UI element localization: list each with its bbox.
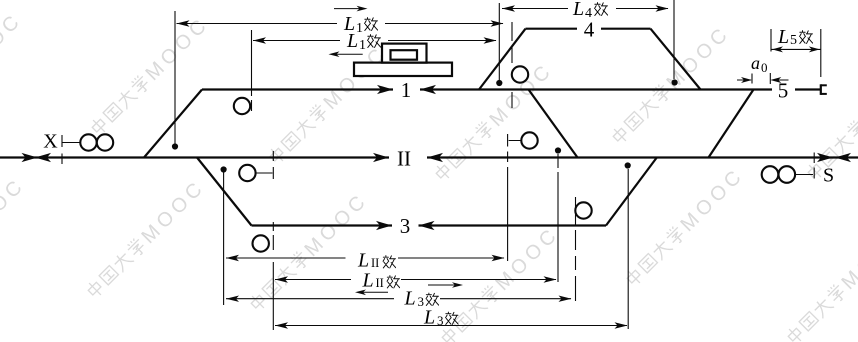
svg-text:4: 4 [585,6,592,21]
direction arrow before L3 outer [355,290,388,296]
turnout track4 left [479,29,526,90]
track 5 label [778,79,789,103]
extension line x=273 dashed [272,151,274,330]
arrowhead into track1 label (left) [420,85,436,94]
dwarf signal track3 right [575,202,591,218]
direction arrow after LII inner [428,282,463,288]
extension line x=499 [498,3,500,80]
extension line x=558 [557,154,559,282]
extension line L5 left [770,29,772,52]
wire track 3 right segment [419,224,607,226]
extension line x=628 [627,169,629,329]
svg-text:L: L [423,307,435,329]
dimension LII inner label [362,270,400,292]
svg-text:X: X [43,131,58,153]
dimension LII outer line [226,255,505,261]
signal X [43,131,113,165]
turnout track3 left [197,158,252,226]
dimension LII outer label [357,250,396,272]
extension line x=674 [673,0,675,79]
extension line x=251.5 dashed [251,30,253,111]
dimension LII inner line [275,276,557,282]
dimension L1 outer label [343,13,378,36]
svg-text:a: a [751,53,760,73]
extension line x=575.5 dashed [575,197,577,301]
extension line x=223.6 [223,172,225,305]
signal S [762,153,834,187]
svg-text:L: L [777,26,789,48]
track 1 label [401,78,412,102]
joint dot track4 left [496,80,502,86]
svg-text:1: 1 [359,38,366,53]
turnout track4 right [651,29,701,90]
dwarf signal above II right [508,132,538,148]
track II label [397,147,411,171]
wire main track II left segment [0,156,389,158]
arrowhead into track3 label (right) [376,221,392,230]
wire main track II right segment [427,156,858,158]
dimension L4 line [502,5,669,11]
joint dot left of track3 turnout [221,166,227,172]
wire track 1 [202,88,393,90]
track 4 label [584,18,595,42]
extension line x=512 dashed [511,22,513,108]
dwarf signal near track1 left [234,98,250,114]
svg-text:3: 3 [437,313,444,328]
arrowhead into track3 label (left) [419,221,435,230]
wire track 5 stub [795,88,821,90]
svg-text:II: II [371,256,379,270]
svg-text:L: L [346,30,358,52]
dimension L3 inner label [423,307,458,329]
dimension L1 outer line [177,20,504,26]
direction arrow below L1 inner [329,51,363,57]
wire track 4 left segment [526,28,578,30]
turnout track5 [709,90,754,158]
svg-text:L: L [572,0,584,20]
left end opposing arrows on II [22,153,52,162]
svg-text:II: II [397,147,411,171]
dimension L4 label [572,0,608,21]
direction arrow above L1 [334,6,368,12]
tick a0 left [751,74,753,84]
svg-text:4: 4 [584,18,595,42]
dimension L3 outer line [226,296,572,302]
joint dot track4 right [672,79,678,85]
dwarf signal below II left [239,165,272,181]
extension line x=175 [174,11,176,144]
svg-text:L: L [362,270,374,292]
svg-text:1: 1 [401,78,412,102]
dimension L5 label [777,26,813,48]
svg-text:0: 0 [761,60,768,75]
track 3 label [400,214,411,238]
turnout track3 right [606,158,657,226]
dwarf signal track4 [512,66,528,82]
dimension L1 inner line [253,37,497,43]
extension line x=507.6 lower [507,152,509,262]
wire track 4 right segment [601,28,651,30]
dimension a0 label [751,53,768,75]
right end opposing arrows on II [817,153,851,162]
wire track 3 [252,224,393,226]
dimension L1 inner label [346,30,381,53]
joint dot track1 right [555,147,561,153]
buffer stop at track 5 end [821,84,827,95]
dimension L3 inner line [275,322,628,328]
arrowhead into track1 label (right) [377,85,393,94]
station building [354,44,452,76]
svg-text:L: L [404,288,416,310]
joint dot left of track1 turnout [172,143,178,149]
dimension L3 outer label [404,288,439,310]
dimension L5 line [771,46,821,52]
svg-text:S: S [823,165,834,187]
turnout track1 left [144,90,202,158]
extension line L5 right [820,29,822,77]
svg-text:3: 3 [400,214,411,238]
arrowhead into II label (right) [373,153,389,162]
dwarf signal below track 3 [253,235,269,251]
wire track 1 continued to track 5 [420,88,772,90]
joint dot track3 right [625,162,631,168]
turnout track1 right to II [529,90,578,158]
dimension a0 arrows [737,77,789,83]
svg-text:5: 5 [790,33,797,48]
svg-text:II: II [376,276,384,290]
tick a0 right [769,73,771,84]
svg-text:L: L [357,250,369,272]
arrowhead into II label (left) [427,153,443,162]
